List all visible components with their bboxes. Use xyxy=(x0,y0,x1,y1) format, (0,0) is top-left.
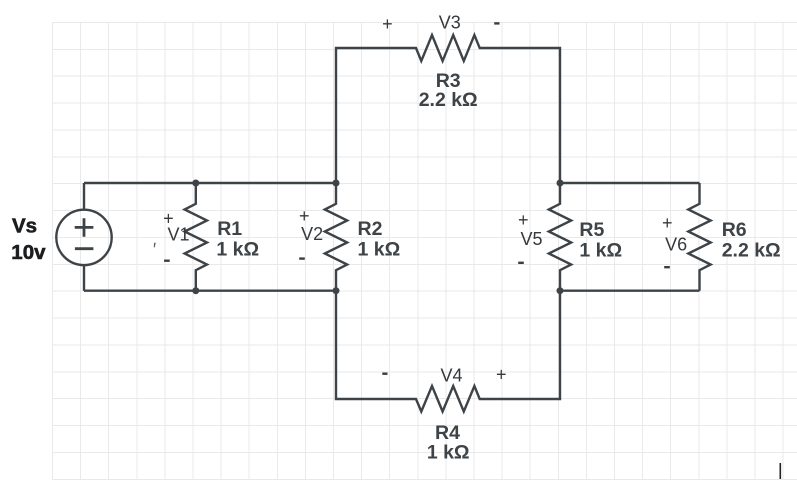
svg-text:+: + xyxy=(299,206,310,226)
svg-text:1 kΩ: 1 kΩ xyxy=(216,239,259,261)
svg-text:1 kΩ: 1 kΩ xyxy=(358,239,401,261)
svg-text:V4: V4 xyxy=(441,366,463,386)
svg-text:R1: R1 xyxy=(217,218,242,240)
svg-text:1 kΩ: 1 kΩ xyxy=(427,442,470,464)
svg-text:+: + xyxy=(496,365,507,385)
svg-text:V5: V5 xyxy=(521,229,543,249)
svg-text:V2: V2 xyxy=(301,224,323,244)
svg-text:10v: 10v xyxy=(11,241,46,264)
svg-text:V6: V6 xyxy=(665,235,687,255)
svg-text:2.2 kΩ: 2.2 kΩ xyxy=(722,240,781,262)
svg-text:Vs: Vs xyxy=(12,214,37,237)
svg-text:1 kΩ: 1 kΩ xyxy=(579,240,622,262)
svg-text:+: + xyxy=(163,209,174,229)
svg-text:+: + xyxy=(382,14,393,34)
svg-text:2.2 kΩ: 2.2 kΩ xyxy=(419,89,478,111)
svg-text:+: + xyxy=(662,213,673,233)
svg-text:+: + xyxy=(518,210,529,230)
svg-text:V3: V3 xyxy=(439,13,461,33)
svg-text:R2: R2 xyxy=(358,218,383,240)
svg-text:R6: R6 xyxy=(722,219,747,241)
svg-text:R5: R5 xyxy=(579,219,604,241)
